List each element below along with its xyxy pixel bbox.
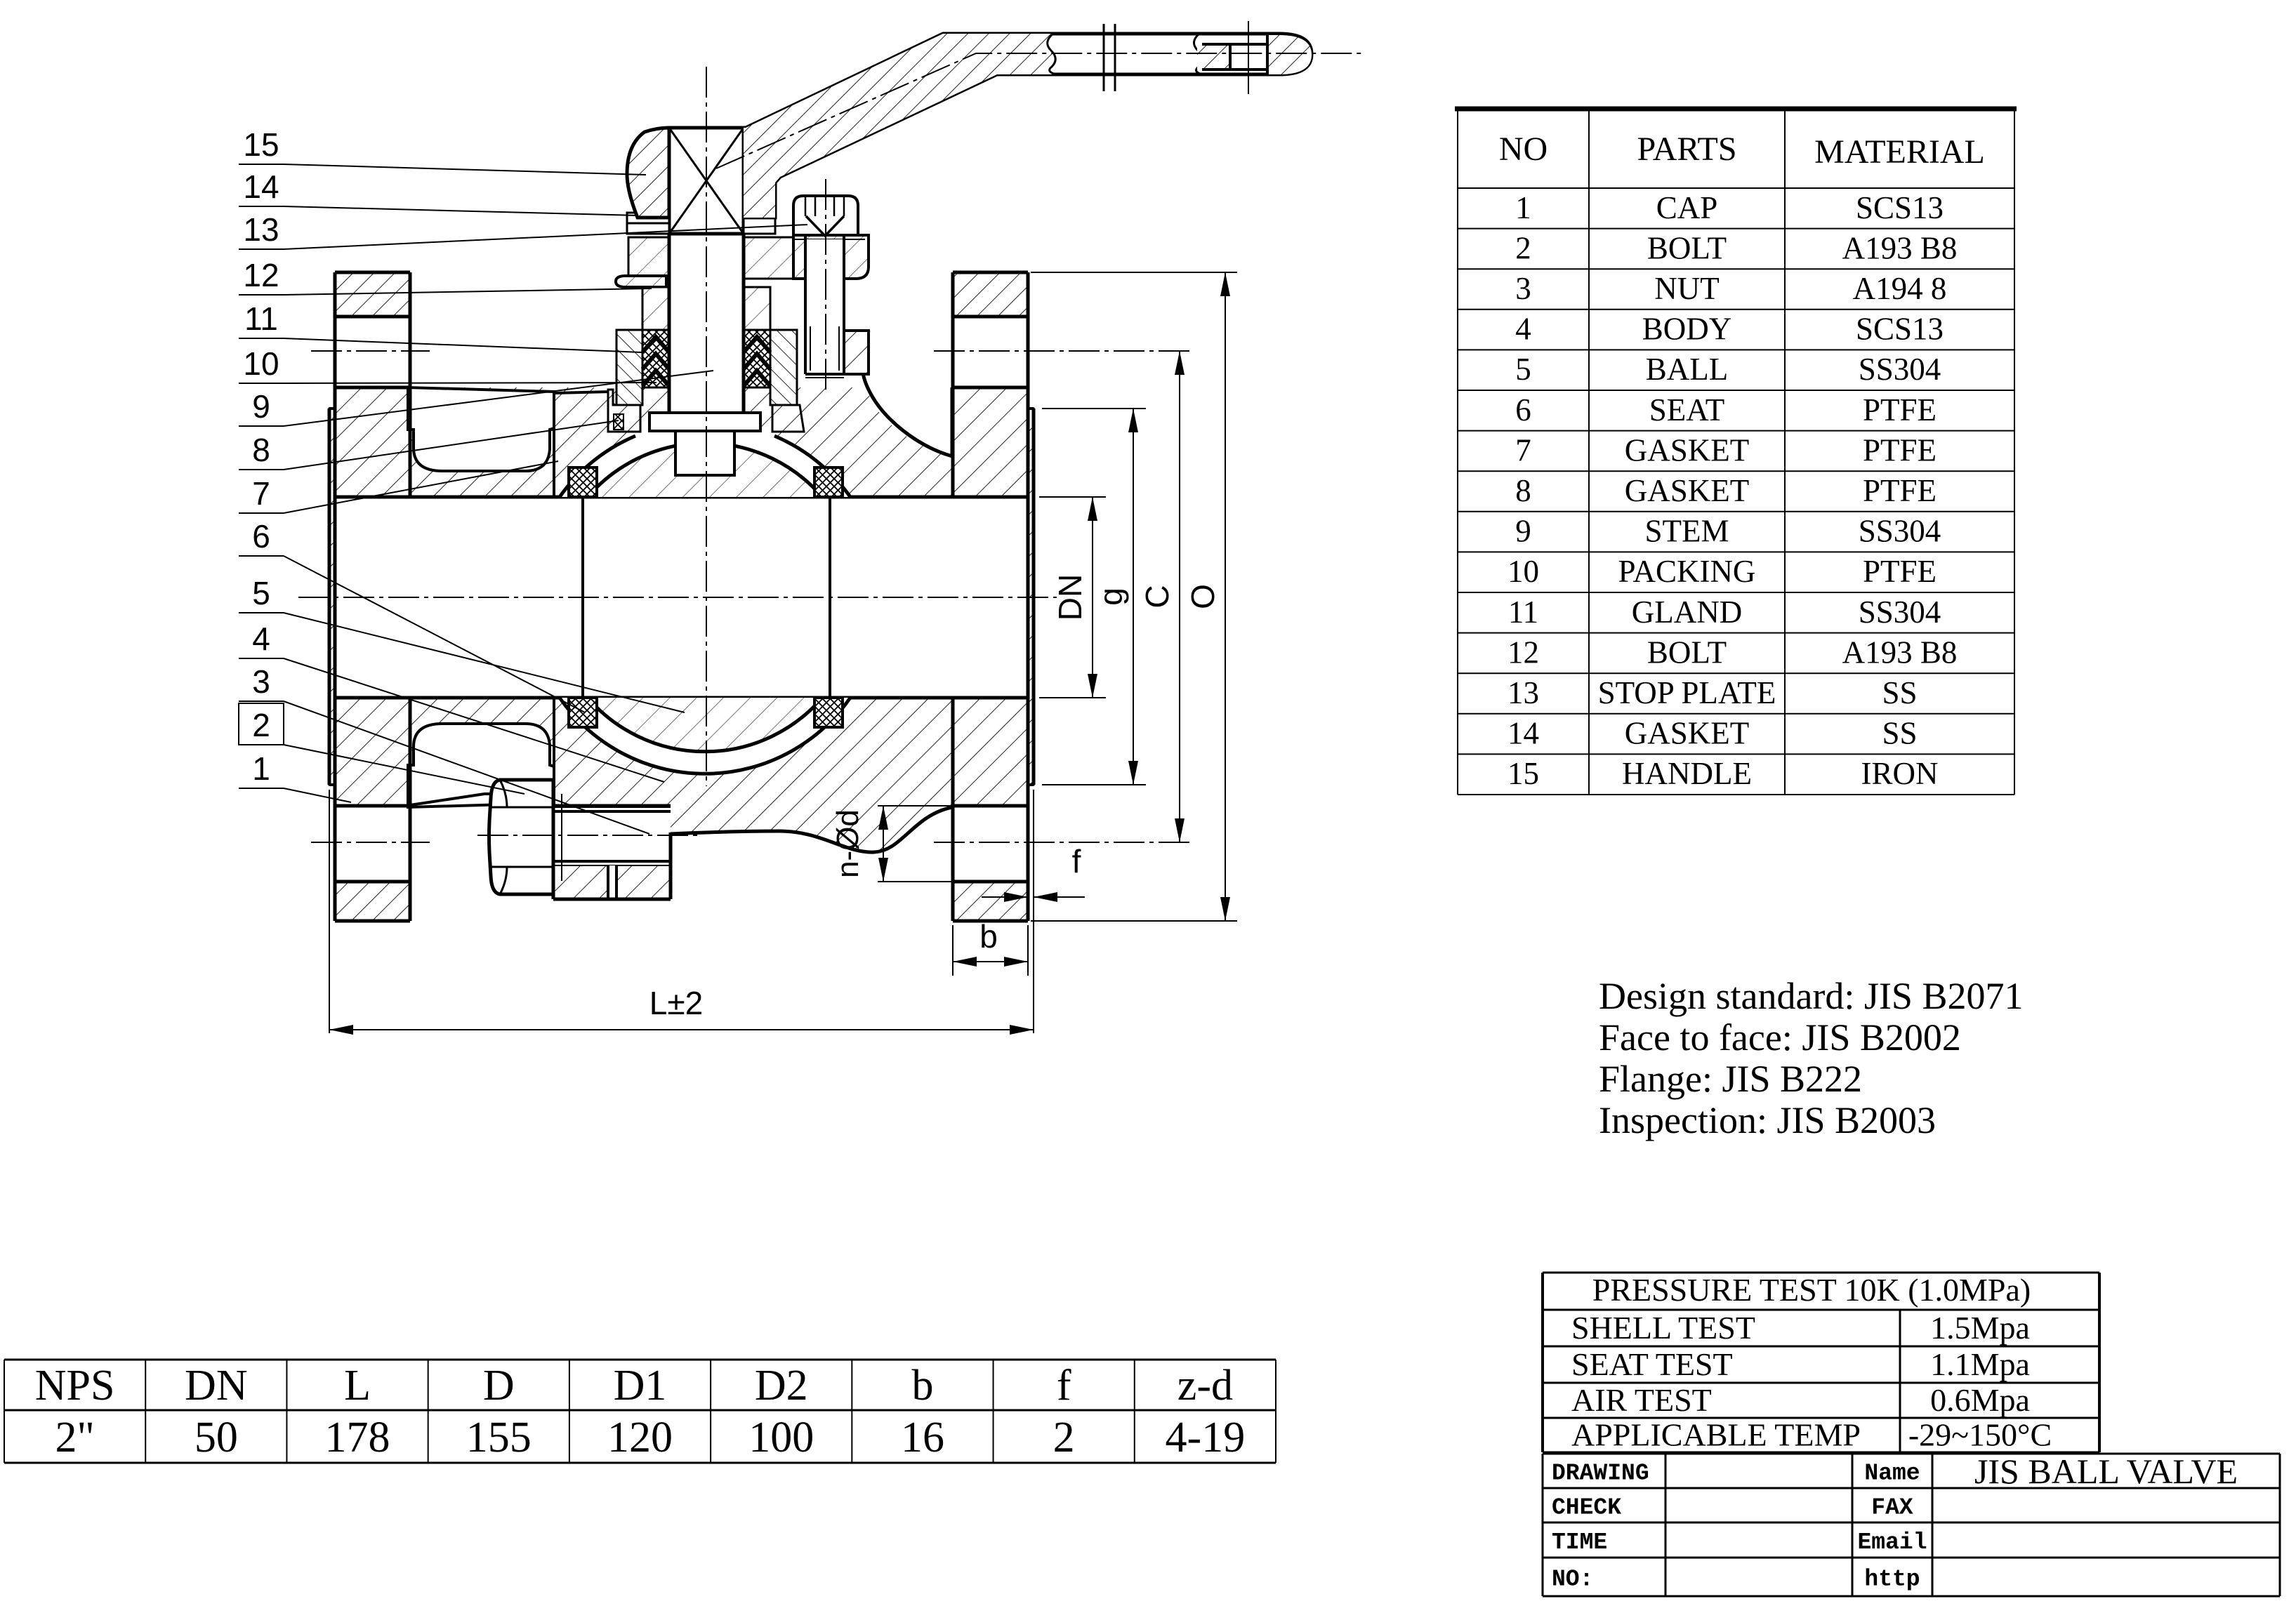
gland 11 flange left xyxy=(616,276,666,287)
svg-text:HANDLE: HANDLE xyxy=(1622,756,1752,791)
gland 11 nose right xyxy=(744,287,770,330)
dimension L+-2 xyxy=(329,790,330,1033)
right hub inner edge xyxy=(951,387,954,456)
bonnet lower step left xyxy=(608,390,640,432)
stem 9 shaft xyxy=(669,234,744,413)
svg-text:GASKET: GASKET xyxy=(1625,473,1750,508)
body S-curve outline right xyxy=(862,331,952,456)
svg-text:A193 B8: A193 B8 xyxy=(1842,635,1958,670)
svg-text:Email: Email xyxy=(1857,1529,1927,1555)
left flange bolt centerline lower xyxy=(311,842,430,843)
body cavity pocket upper xyxy=(408,387,554,471)
handle grip inner hole lines xyxy=(1202,43,1267,46)
svg-text:NO:: NO: xyxy=(1552,1567,1593,1593)
handle centerline xyxy=(716,53,1362,168)
svg-text:CAP: CAP xyxy=(1656,190,1718,225)
packing 10 right xyxy=(744,330,770,387)
gland 11 right arm xyxy=(793,235,869,279)
svg-text:5: 5 xyxy=(252,575,270,611)
svg-text:AIR TEST: AIR TEST xyxy=(1571,1382,1712,1418)
svg-text:NUT: NUT xyxy=(1654,271,1719,306)
body cavity arc upper-left xyxy=(560,436,635,497)
bonnet lower step right xyxy=(772,405,804,432)
svg-text:BALL: BALL xyxy=(1646,352,1729,387)
bonnet wall left (stud section) xyxy=(616,330,642,405)
svg-text:D: D xyxy=(483,1362,515,1409)
size table grid xyxy=(4,1359,1276,1361)
svg-text:STEM: STEM xyxy=(1644,514,1729,549)
seat 6 right lower xyxy=(814,698,843,727)
svg-text:SHELL TEST: SHELL TEST xyxy=(1571,1310,1755,1346)
svg-text:Flange: JIS B222: Flange: JIS B222 xyxy=(1599,1058,1862,1100)
svg-text:14: 14 xyxy=(243,168,279,205)
right hub inner edge lower xyxy=(951,806,954,807)
body 4 and cap 1: lower section band xyxy=(335,698,1028,792)
cap-body joint line lower xyxy=(553,698,555,804)
svg-text:11: 11 xyxy=(244,300,278,337)
right flange horizontals xyxy=(953,271,1028,274)
body 4: upper right under S-curve xyxy=(865,360,1028,497)
svg-text:15: 15 xyxy=(243,126,279,163)
ball 5: upper dome section xyxy=(588,443,822,497)
svg-text:2: 2 xyxy=(1053,1414,1075,1461)
svg-text:3: 3 xyxy=(1515,271,1531,306)
ball 5 upper arc xyxy=(588,443,822,497)
svg-text:0.6Mpa: 0.6Mpa xyxy=(1930,1382,2030,1418)
pipe bore top line xyxy=(335,496,1028,499)
stem axis centerline xyxy=(706,67,707,786)
handle grip end hatch xyxy=(1267,35,1312,74)
handle grip squiggle 2 xyxy=(1194,34,1202,74)
svg-text:6: 6 xyxy=(1515,392,1531,427)
handle grip joint squiggle xyxy=(1048,34,1056,74)
svg-text:IRON: IRON xyxy=(1861,756,1939,791)
dimension C xyxy=(1179,351,1180,842)
svg-text:7: 7 xyxy=(1515,432,1531,467)
seat 6 left upper xyxy=(569,467,597,497)
svg-text:A194 8: A194 8 xyxy=(1853,271,1947,306)
svg-text:BOLT: BOLT xyxy=(1647,230,1727,265)
svg-text:7: 7 xyxy=(252,475,270,512)
svg-text:4-19: 4-19 xyxy=(1166,1414,1246,1461)
svg-text:6: 6 xyxy=(252,518,270,555)
svg-text:120: 120 xyxy=(607,1414,673,1461)
svg-text:2: 2 xyxy=(1515,230,1531,265)
svg-text:SCS13: SCS13 xyxy=(1856,312,1944,347)
svg-text:8: 8 xyxy=(252,432,270,468)
right flange bolt centerline lower xyxy=(934,842,1194,843)
dimension O xyxy=(1225,272,1226,921)
gland 11 body left xyxy=(628,237,669,277)
n-od extension lines xyxy=(878,805,955,807)
stop plate 13 left tab xyxy=(627,213,669,223)
right flange inner edge upper xyxy=(951,272,955,497)
body top surface left of bonnet xyxy=(554,392,621,432)
svg-text:g: g xyxy=(1093,588,1129,606)
svg-text:A193 B8: A193 B8 xyxy=(1842,230,1958,265)
svg-text:100: 100 xyxy=(748,1414,814,1461)
svg-text:http: http xyxy=(1864,1567,1920,1593)
dimension b xyxy=(952,925,954,976)
title block grid xyxy=(1543,1453,2280,1455)
svg-text:DN: DN xyxy=(185,1362,248,1409)
svg-text:SS304: SS304 xyxy=(1859,595,1941,630)
bottom bolt centerline xyxy=(477,835,699,836)
ball 5 lower arc xyxy=(588,698,822,752)
washer face xyxy=(552,780,555,894)
stem 9 tang xyxy=(675,431,734,475)
svg-text:1: 1 xyxy=(1515,190,1531,225)
svg-text:f: f xyxy=(1057,1362,1071,1409)
pipe bore bottom line xyxy=(335,696,1028,700)
seat face lines across bore xyxy=(581,497,584,698)
gland 11 nose left xyxy=(642,287,669,330)
svg-text:2": 2" xyxy=(55,1414,94,1461)
right flange inner edge lower xyxy=(951,698,955,921)
svg-text:13: 13 xyxy=(243,211,279,248)
pipe axis centerline xyxy=(298,597,1057,598)
svg-text:8: 8 xyxy=(1515,473,1531,508)
dimension DN xyxy=(1092,497,1093,698)
handle 15 lever+grip outline xyxy=(744,34,1312,218)
stop plate 13 right tab xyxy=(744,213,775,234)
svg-text:PACKING: PACKING xyxy=(1618,554,1756,589)
svg-text:MATERIAL: MATERIAL xyxy=(1814,133,1985,171)
boss outline xyxy=(552,806,555,899)
svg-text:b: b xyxy=(979,918,998,955)
stem box X xyxy=(669,128,744,234)
svg-text:f: f xyxy=(1072,843,1081,880)
gasket 8 xyxy=(614,414,624,430)
packing chevrons right xyxy=(744,337,770,386)
svg-text:CHECK: CHECK xyxy=(1552,1495,1621,1521)
svg-text:Face to face: JIS B2002: Face to face: JIS B2002 xyxy=(1599,1016,1961,1058)
cap underside outline xyxy=(410,794,553,805)
svg-text:SS304: SS304 xyxy=(1859,352,1941,387)
stem 9 collar xyxy=(649,413,760,431)
svg-text:L±2: L±2 xyxy=(649,985,703,1021)
svg-text:BOLT: BOLT xyxy=(1647,635,1727,670)
left flange raised face lip xyxy=(329,409,335,785)
svg-text:4: 4 xyxy=(252,620,270,657)
svg-text:DN: DN xyxy=(1052,574,1088,620)
gland bolt centerline xyxy=(825,179,826,393)
svg-text:1.5Mpa: 1.5Mpa xyxy=(1930,1310,2030,1346)
right flange face line xyxy=(1027,272,1030,921)
handle 15 hatched part xyxy=(744,34,1056,218)
svg-text:Design standard: JIS B2071: Design standard: JIS B2071 xyxy=(1599,975,2023,1017)
left flange horizontals xyxy=(335,271,410,274)
parts table grid xyxy=(1457,109,1458,795)
bolt head seat line xyxy=(793,234,865,237)
body cavity pocket lower xyxy=(408,724,554,807)
handle grip hatch sliver xyxy=(1197,44,1230,69)
right flange raised face lip xyxy=(1028,409,1034,785)
packing 10 left xyxy=(642,330,669,387)
cavity gap below ball xyxy=(560,698,850,774)
stem square box xyxy=(669,128,744,234)
svg-text:D1: D1 xyxy=(614,1362,667,1409)
svg-text:-29~150°C: -29~150°C xyxy=(1908,1417,2052,1453)
svg-text:178: 178 xyxy=(325,1414,390,1461)
lower outline wave right xyxy=(671,807,952,852)
svg-text:10: 10 xyxy=(1507,554,1539,589)
svg-text:9: 9 xyxy=(1515,514,1531,549)
svg-text:1: 1 xyxy=(252,750,270,787)
right flange strip above lower hole xyxy=(953,792,1028,806)
svg-text:NO: NO xyxy=(1499,131,1548,168)
svg-text:2: 2 xyxy=(252,707,270,743)
svg-text:155: 155 xyxy=(466,1414,532,1461)
cap-body joint line upper xyxy=(553,390,555,497)
pressure table border xyxy=(1541,1273,1544,1452)
ball 5: lower dome section xyxy=(588,698,822,752)
svg-text:PTFE: PTFE xyxy=(1863,473,1937,508)
cap/body lug joint gap xyxy=(608,865,616,899)
left flange face line xyxy=(334,272,337,921)
svg-text:4: 4 xyxy=(1515,312,1531,347)
svg-text:5: 5 xyxy=(1515,352,1531,387)
gasket 14 left tab xyxy=(627,223,669,234)
svg-text:GASKET: GASKET xyxy=(1625,716,1750,751)
right flange tab top xyxy=(953,272,1028,317)
body 4: upper section band xyxy=(335,387,869,497)
svg-text:b: b xyxy=(911,1362,933,1409)
dimension n-od xyxy=(883,806,884,882)
svg-text:50: 50 xyxy=(194,1414,238,1461)
svg-text:1.1Mpa: 1.1Mpa xyxy=(1930,1346,2030,1382)
svg-text:n-Ød: n-Ød xyxy=(831,809,865,878)
f/L extension line xyxy=(1033,790,1034,1033)
svg-text:12: 12 xyxy=(243,257,279,293)
svg-text:NPS: NPS xyxy=(35,1362,115,1409)
body cavity arc upper-right xyxy=(774,436,850,497)
svg-text:JIS BALL VALVE: JIS BALL VALVE xyxy=(1974,1452,2238,1491)
gland 11 body right xyxy=(744,237,793,279)
svg-text:GLAND: GLAND xyxy=(1632,595,1742,630)
left flange bolt centerline upper xyxy=(311,350,430,352)
handle break lines xyxy=(1103,24,1105,91)
dimension f xyxy=(982,896,1028,898)
parts table heavy top rule xyxy=(1455,107,2017,112)
svg-text:DRAWING: DRAWING xyxy=(1552,1461,1649,1487)
cavity gap above ball xyxy=(560,421,850,497)
right flange tab bottom xyxy=(953,882,1028,921)
body cavity arc lower xyxy=(560,698,850,774)
svg-text:3: 3 xyxy=(252,663,270,700)
svg-text:PRESSURE TEST 10K (1.0MPa): PRESSURE TEST 10K (1.0MPa) xyxy=(1592,1272,2031,1308)
left flange inner edge upper xyxy=(409,272,412,497)
svg-text:STOP PLATE: STOP PLATE xyxy=(1598,675,1776,710)
right flange lip face xyxy=(1032,409,1036,785)
svg-text:10: 10 xyxy=(243,345,279,382)
svg-text:D2: D2 xyxy=(755,1362,808,1409)
svg-text:SS304: SS304 xyxy=(1859,514,1941,549)
svg-text:16: 16 xyxy=(901,1414,944,1461)
svg-text:SCS13: SCS13 xyxy=(1856,190,1944,225)
seat 6 left lower xyxy=(569,698,597,727)
handle hole centerline xyxy=(1248,21,1249,94)
packing chevrons left xyxy=(642,337,669,386)
seat 6 right upper xyxy=(814,467,843,497)
cap 1: lower wedge under band xyxy=(335,792,553,806)
callout 2 box xyxy=(239,703,284,745)
svg-text:BODY: BODY xyxy=(1642,312,1732,347)
svg-text:GASKET: GASKET xyxy=(1625,432,1750,467)
left flange lip face xyxy=(328,409,331,785)
svg-text:O: O xyxy=(1185,584,1221,609)
left flange inner edge lower xyxy=(409,698,412,921)
body 4: lower protrusion mass right xyxy=(671,792,952,852)
gland bolt 12 head xyxy=(793,196,858,235)
svg-text:11: 11 xyxy=(1508,595,1538,630)
svg-text:APPLICABLE TEMP: APPLICABLE TEMP xyxy=(1571,1417,1861,1453)
svg-text:SS: SS xyxy=(1882,675,1917,710)
extension lines right xyxy=(1039,496,1106,498)
dimension g xyxy=(1133,409,1134,785)
handle 15 hub left xyxy=(627,128,669,218)
svg-text:TIME: TIME xyxy=(1552,1529,1607,1555)
right flange bolt centerline upper xyxy=(934,350,1194,352)
gland bolt 12 socket V xyxy=(806,216,844,236)
body boss at gland bolt xyxy=(844,331,869,374)
svg-text:15: 15 xyxy=(1507,756,1539,791)
svg-text:Name: Name xyxy=(1864,1461,1920,1487)
bolt boss lugs xyxy=(553,792,671,899)
left flange tab top xyxy=(335,272,410,317)
svg-text:12: 12 xyxy=(1507,635,1539,670)
svg-text:C: C xyxy=(1139,585,1175,608)
svg-text:FAX: FAX xyxy=(1871,1495,1913,1521)
left flange tab bottom xyxy=(335,882,410,921)
gland bolt 12 socket lines xyxy=(805,196,807,216)
nut 3 (hex) xyxy=(489,780,554,894)
svg-text:Inspection: JIS B2003: Inspection: JIS B2003 xyxy=(1599,1099,1936,1141)
svg-text:SEAT TEST: SEAT TEST xyxy=(1571,1346,1733,1382)
svg-text:PARTS: PARTS xyxy=(1637,131,1736,168)
svg-text:PTFE: PTFE xyxy=(1863,554,1937,589)
bolt 2 shank (bottom) xyxy=(553,807,671,865)
svg-text:PTFE: PTFE xyxy=(1863,392,1937,427)
svg-text:PTFE: PTFE xyxy=(1863,432,1937,467)
svg-text:SS: SS xyxy=(1882,716,1917,751)
svg-text:z-d: z-d xyxy=(1177,1362,1233,1409)
svg-text:SEAT: SEAT xyxy=(1649,392,1725,427)
svg-text:13: 13 xyxy=(1507,675,1539,710)
gland bolt 12 shank xyxy=(805,239,844,374)
svg-text:L: L xyxy=(344,1362,371,1409)
svg-text:14: 14 xyxy=(1507,716,1539,751)
bonnet wall right xyxy=(770,330,797,405)
svg-text:9: 9 xyxy=(252,388,270,425)
